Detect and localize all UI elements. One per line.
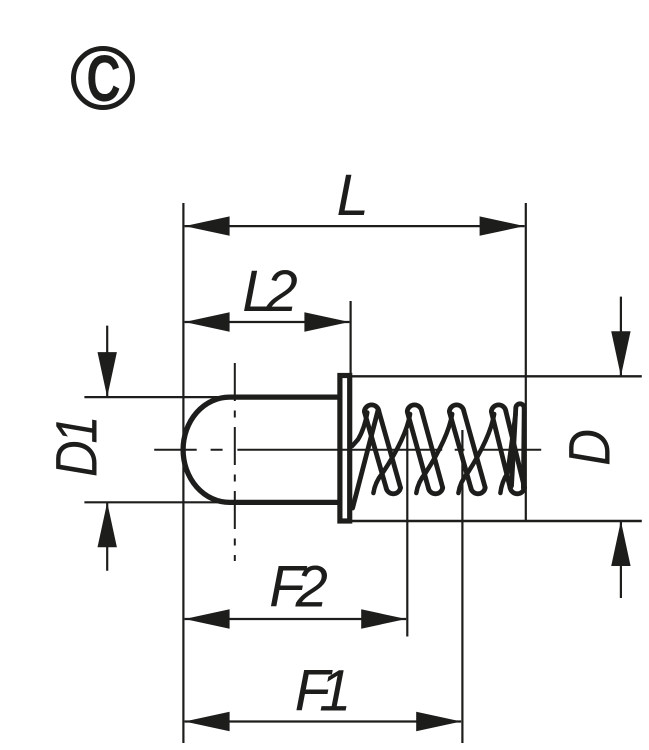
spring bottom cap 3	[471, 488, 485, 494]
svg-text:L: L	[336, 163, 368, 228]
spring top cap 3	[449, 405, 463, 411]
spring front strand cap3-right down to valley3-right	[464, 411, 485, 488]
spring bottom cap 1	[386, 488, 400, 494]
dimension D1 tail top	[106, 326, 108, 398]
spring front strand cap4-left down to valley4-left	[491, 412, 510, 488]
extension line D1 bottom	[84, 501, 232, 503]
spring front strand cap2-left down to valley2-left	[407, 412, 428, 488]
spring front strand cap4-right down to valley4-right	[506, 411, 525, 488]
spring back strand cell 1	[373, 414, 410, 493]
svg-text:C: C	[86, 42, 120, 115]
dimension L arrow left	[185, 216, 230, 235]
dimension L line	[185, 225, 525, 227]
extension line F1 right	[461, 430, 463, 743]
centerline horizontal (pin axis)	[154, 449, 541, 451]
dimension L arrow right	[480, 216, 525, 235]
svg-text:F2: F2	[269, 555, 327, 620]
spring back strand stub at flange	[352, 413, 367, 447]
spring top cap 2	[407, 405, 421, 411]
dimension D arrow top (pointing down)	[611, 331, 630, 376]
spring front strand cap2-right down to valley2-right	[422, 411, 443, 488]
dimension F1 arrow right	[416, 712, 461, 731]
position symbol circle C	[74, 49, 133, 108]
extension line left (pin tip)	[182, 203, 184, 743]
spring bottom cap 4	[510, 488, 524, 494]
dimension F1 line	[185, 720, 462, 722]
extension line F2 right	[406, 430, 408, 637]
housing bottom line + D bottom extension	[352, 520, 642, 522]
spring end coil leg to flange bottom	[353, 410, 379, 509]
spring top cap 1	[364, 405, 378, 411]
dimension D1 arrow bottom (pointing up)	[98, 502, 117, 547]
spring bottom cap 2	[428, 488, 442, 494]
housing top line + D top extension	[352, 375, 642, 377]
extension line D1 top	[84, 396, 232, 398]
centerline vertical (dome center)	[234, 363, 236, 561]
spring top cap 5 (narrow, end coil)	[516, 404, 524, 408]
dimension L2 line	[185, 321, 350, 323]
spring front strand cap3-left down to valley3-left	[449, 412, 470, 488]
svg-text:F1: F1	[295, 659, 347, 724]
dimension L2 arrow right	[304, 312, 349, 331]
spring back strand cell 2	[416, 414, 452, 493]
spring front strand cap1-right down to valley1-right	[379, 411, 401, 488]
spring end loop right leg	[521, 408, 527, 488]
dimension F2 arrow right	[361, 609, 406, 628]
dimension D tail bottom	[620, 521, 622, 598]
dimension D tail top	[620, 297, 622, 377]
dimension D arrow bottom (pointing up)	[611, 521, 630, 566]
dimension L2 arrow left	[185, 312, 230, 331]
dimension D1 arrow top (pointing down)	[98, 352, 117, 397]
spring top cap 4	[491, 405, 505, 411]
dimension F2 line	[185, 618, 407, 620]
spring coil	[352, 404, 524, 508]
svg-text:D1: D1	[44, 419, 109, 477]
dimension F1 arrow left	[185, 712, 230, 731]
dimension F2 arrow left	[185, 609, 230, 628]
spring end loop left leg	[512, 408, 516, 486]
spring back strand cell 4 (from end coil)	[500, 414, 515, 493]
spring front strand cap1-left down to valley1-left	[364, 412, 386, 488]
spring back strand cell 3	[458, 414, 494, 493]
extension line right (L / housing right edge)	[525, 203, 527, 521]
extension line L2 right (flange)	[350, 301, 352, 374]
flange (collar)	[340, 376, 350, 522]
pin with dome end (pressure piece)	[183, 397, 337, 502]
dimension D1 tail bottom	[106, 502, 108, 571]
svg-text:D: D	[557, 429, 622, 466]
